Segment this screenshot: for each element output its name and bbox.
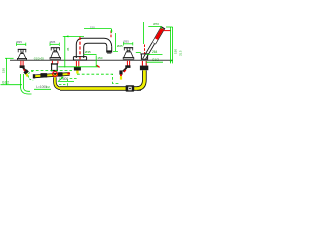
- right height dimension: [166, 27, 183, 63]
- holder label 264: [146, 50, 163, 54]
- svg-text:150: 150: [90, 26, 95, 30]
- svg-text:150: 150: [97, 56, 102, 60]
- left height dimension: [2, 58, 14, 84]
- svg-text:Ø35: Ø35: [16, 40, 22, 44]
- handshower head leader (red): [164, 30, 171, 32]
- spout base flange: [73, 57, 86, 60]
- spout under-deck shank: [74, 61, 81, 74]
- spout outlet dimension: [113, 33, 123, 51]
- svg-text:264: 264: [152, 50, 158, 54]
- spout outlet centerline (red dashed): [110, 31, 112, 38]
- holder tick: [136, 52, 141, 54]
- svg-text:Ø35: Ø35: [123, 39, 129, 43]
- left thread label: [1, 81, 23, 85]
- hose alt-route bend: [21, 87, 32, 94]
- deck mounting line: [10, 59, 173, 61]
- svg-text:Ø35: Ø35: [85, 50, 91, 54]
- bottom hose core (yellow): [60, 87, 141, 90]
- bottom hose outline: [60, 86, 141, 91]
- hose drop from tee: [55, 77, 63, 88]
- handshower wand handle: [143, 43, 152, 59]
- valve V1 inlet pipe (red): [20, 61, 22, 66]
- spout centerline (red dashed): [79, 37, 81, 60]
- svg-text:Ø35: Ø35: [50, 40, 56, 44]
- valve V1 dimension: [16, 40, 26, 46]
- spout aerator label: [84, 50, 97, 54]
- hose alt-route lines under valve V1: [20, 74, 22, 88]
- svg-text:150: 150: [174, 49, 178, 54]
- dashed bubble arc at hose end: [28, 71, 33, 80]
- dashed hose envelope (mid): [77, 74, 119, 83]
- spout outlet nozzle: [106, 50, 112, 52]
- svg-text:Ø25: Ø25: [117, 44, 123, 48]
- valve V3 inlet pipe (red): [126, 61, 128, 66]
- upper hose core (yellow): [34, 74, 70, 76]
- upper hose fitting left: [40, 73, 47, 77]
- valve V1 elbow fitting: [20, 65, 29, 76]
- handshower holder shank (red): [141, 61, 143, 66]
- handshower head dimension: [148, 22, 161, 29]
- valve V3 dimension: [123, 39, 133, 45]
- dashed hose envelope (bend corner): [68, 78, 77, 85]
- dashed hose envelope (upper): [31, 70, 72, 72]
- handshower holder extension line: [143, 22, 145, 44]
- bottom hose right bend: [137, 70, 144, 88]
- spout spacing dimension (below deck): [58, 36, 102, 67]
- valve V2 dimension: [50, 40, 60, 46]
- handshower head top cap: [161, 26, 165, 29]
- svg-text:Ø70: Ø70: [153, 22, 159, 26]
- valve V3 elbow fitting: [119, 65, 130, 79]
- handshower holder nut: [140, 66, 148, 71]
- holder thread label: [146, 58, 163, 62]
- svg-text:L=1000: L=1000: [36, 85, 47, 89]
- svg-text:150: 150: [2, 68, 6, 73]
- spout height small dimension: [63, 35, 84, 37]
- spout body: [76, 38, 111, 58]
- upper hose outline: [34, 74, 70, 77]
- svg-text:31.5: 31.5: [179, 50, 183, 56]
- valve V2 under-deck body: [51, 63, 58, 71]
- upper hose left cap: [33, 74, 35, 78]
- hose length label L=1000: [34, 85, 51, 89]
- dashed envelope above bottom hose: [59, 84, 67, 86]
- valve V1 handle: [17, 49, 26, 60]
- tee nut (red ring): [53, 72, 58, 77]
- hose length label L=800: [58, 77, 74, 82]
- handshower holder centerline (red dashed): [144, 45, 146, 54]
- upper hose red tip: [67, 72, 70, 74]
- handshower head (red): [154, 28, 163, 44]
- svg-text:G1/2: G1/2: [152, 58, 159, 62]
- upper hose fitting right: [58, 72, 63, 76]
- svg-text:35: 35: [66, 47, 70, 51]
- svg-text:G1/2: G1/2: [2, 81, 9, 85]
- svg-text:G1/2×35: G1/2×35: [34, 56, 45, 60]
- valve V2 inlet stubs (red): [51, 61, 53, 64]
- spout reach dimension: [84, 26, 113, 33]
- handshower holder cradle: [140, 54, 149, 59]
- bottom hose connector: [126, 85, 135, 91]
- valve V3 handle: [123, 47, 134, 59]
- valve V2 handle: [50, 47, 61, 59]
